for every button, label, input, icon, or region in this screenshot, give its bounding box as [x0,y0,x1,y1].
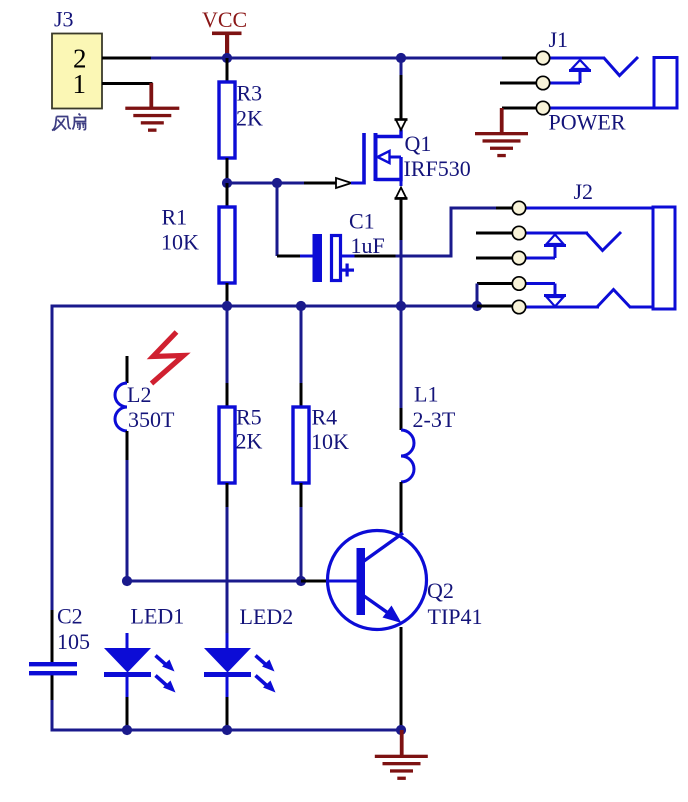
inductor L2 [115,356,129,581]
svg-text:C2: C2 [57,604,83,629]
node R3/R1 junction [222,178,232,188]
wire base pin [301,580,357,583]
wire gate net [227,182,304,185]
svg-text:R3: R3 [237,81,263,106]
wire Q2 emitter [400,627,403,731]
inductor L1 [400,306,415,534]
wire Q2 collector [400,533,403,535]
node mid bus R4 [296,301,306,311]
wire R1 bottom pin [226,283,229,307]
svg-text:R5: R5 [236,405,262,430]
svg-text:L1: L1 [414,382,438,407]
svg-text:Q1: Q1 [405,131,432,156]
svg-text:R4: R4 [312,405,338,430]
wire R5 to LED2 [226,483,229,648]
wire bus to J1 pin1 [502,57,537,60]
node J2 pin4/5 junction [472,301,482,311]
wire R3 bottom pin [226,158,229,183]
svg-text:Q2: Q2 [427,578,454,603]
wire J3 pin2 to bus [102,57,151,60]
wire C1 to J2 [341,207,513,258]
wire top bus [151,57,502,60]
wire R5 top [226,306,229,407]
capacitor C1 [313,234,355,282]
node Q2 base [296,576,306,586]
svg-text:IRF530: IRF530 [404,156,471,181]
svg-text:350T: 350T [128,407,175,432]
svg-text:J1: J1 [549,27,569,52]
svg-text:105: 105 [57,629,90,654]
svg-text:1uF: 1uF [351,233,385,258]
node LED1 top [122,576,132,586]
lightning bolt [152,332,184,384]
svg-text:R1: R1 [162,205,188,230]
svg-text:VCC: VCC [202,7,247,32]
power VCC [202,7,247,58]
diode LED2 [204,648,276,730]
node VCC junction [222,53,232,63]
svg-text:2K: 2K [236,106,263,131]
svg-text:2K: 2K [236,429,263,454]
wire J1 pin2 stub [500,82,537,85]
label 风扇 [52,114,86,131]
wire source [400,198,403,306]
wire R4 bottom [300,483,303,581]
resistor R4 [293,407,309,483]
svg-text:2-3T: 2-3T [413,407,456,432]
wire left rail [51,305,54,732]
wire middle bus [51,305,514,308]
wire LED row bus [127,580,301,583]
svg-text:J3: J3 [54,7,74,32]
svg-text:LED2: LED2 [240,604,294,629]
capacitor C2 [29,662,77,675]
svg-text:1: 1 [73,69,87,99]
wire R4 top [300,306,303,407]
wire R1 top pin [226,183,229,207]
node drain junction [396,53,406,63]
wire bottom bus [51,729,403,732]
node mid bus L1 [396,301,406,311]
node mid bus R5 [222,301,232,311]
diode LED1 [104,633,176,730]
transistor Q2 [328,531,427,630]
svg-text:TIP41: TIP41 [428,604,483,629]
resistor R3 [219,82,235,158]
connector J3 [52,7,102,109]
wire C1 branch [276,183,314,258]
wire J2 pin3 stub [476,257,512,260]
ground (J3) [125,83,179,132]
connector J2 [512,179,675,314]
wire R3 top pin [226,58,229,82]
wire drain [400,58,403,120]
svg-text:J2: J2 [574,179,594,204]
node bottom LED2 [222,725,232,735]
resistor R1 [219,207,235,283]
svg-text:10K: 10K [311,429,349,454]
wire J2 pin2 stub [476,232,512,235]
svg-text:POWER: POWER [549,110,626,135]
wire J3 pin1 [102,82,153,85]
node bottom LED1 [122,725,132,735]
svg-text:L2: L2 [127,382,151,407]
svg-text:LED1: LED1 [131,604,185,629]
connector J1 [536,27,677,115]
resistor R5 [219,407,235,483]
wire J2 pin4 branch [476,282,513,307]
svg-text:C1: C1 [349,209,375,234]
node bottom emitter [396,725,406,735]
svg-text:10K: 10K [161,230,199,255]
transistor Q1 [336,120,408,199]
wire J1 pin3 stub [502,107,537,110]
ground (bottom) [375,730,428,780]
ground (J1) [475,108,528,157]
node C1 branch junction [272,178,282,188]
